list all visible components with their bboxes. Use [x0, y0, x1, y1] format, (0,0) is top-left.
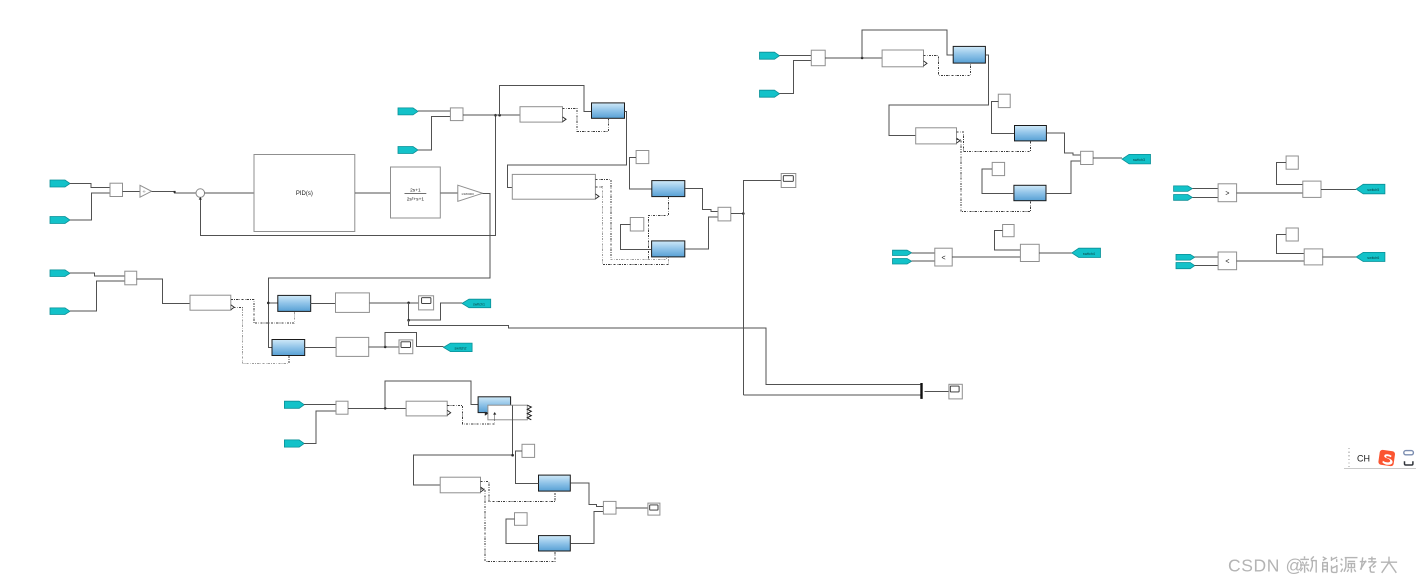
constant C7: [1003, 225, 1015, 237]
wire C5 to RT-E: [982, 169, 1014, 193]
pin R1 out chevron: [563, 117, 567, 122]
pin R1b out chevron: [595, 194, 599, 199]
node tap up: [498, 114, 501, 117]
switch SW6a: [1303, 181, 1321, 197]
svg-text:<: <: [942, 255, 946, 262]
wire M4 to R3: [825, 57, 882, 59]
rate transition RT-C: [953, 46, 985, 63]
svg-text:2s²+s+1: 2s²+s+1: [407, 197, 425, 203]
block R1: [520, 107, 563, 122]
gain K2 1/180000: [458, 185, 483, 201]
wire In11 to REL2: [1192, 188, 1218, 190]
wire MX1 to SC2: [924, 391, 949, 393]
tag switch2: [444, 343, 473, 352]
node jog K1: [174, 191, 176, 193]
node branch RT-A: [267, 302, 270, 305]
constant C15: [515, 513, 528, 526]
wire SW2a out: [731, 213, 744, 215]
wire C2low to RT3: [621, 224, 652, 249]
wire RT-A to RA: [311, 302, 336, 304]
wire RT-E to SW4a: [1046, 161, 1081, 194]
inport In15: [284, 401, 304, 408]
wire REL2 to SW6a: [1237, 192, 1303, 194]
inport In11: [1174, 186, 1193, 192]
wire dashed R7 to RT-H trigger: [481, 489, 555, 561]
wire dashed R2 to RT-A trigger: [231, 299, 294, 323]
block R1b: [512, 174, 595, 199]
inport In5: [50, 270, 70, 277]
rate transition RT-H: [539, 536, 571, 551]
watermark char xin: [1300, 556, 1317, 573]
CSDN logo: [1378, 450, 1395, 467]
wire In9 to REL1: [912, 252, 935, 254]
wire M1 to gain K1: [123, 191, 141, 193]
switch SW2a: [718, 207, 731, 221]
svg-text:switch4: switch4: [1083, 252, 1095, 256]
inport In16: [284, 440, 304, 447]
wire In4 to mux M2: [418, 117, 450, 151]
rate transition RT1: [592, 103, 625, 118]
svg-text:CH: CH: [1357, 454, 1370, 464]
wire C2up to RT2: [630, 157, 652, 189]
wire RT-G to SW8a: [570, 483, 603, 506]
mux M2: [450, 108, 463, 121]
svg-text:switch5: switch5: [1367, 188, 1379, 192]
wire M3 to R2: [137, 279, 190, 304]
scope SCB: [399, 340, 413, 354]
wire dashed RT2 bottom: [648, 197, 668, 260]
rate transition RT-G: [539, 475, 571, 491]
wire C14 to RT-G: [516, 451, 539, 484]
rate transition RT-A: [278, 295, 311, 311]
constant C14: [522, 444, 535, 457]
wire tapA to tag switch1: [409, 303, 462, 320]
wire REL1 to SW5a: [952, 256, 1020, 258]
rate transition RT3: [652, 241, 685, 257]
arrow trigger up: [493, 412, 496, 415]
wire RT-D to SW4a: [1046, 133, 1080, 155]
pin R6 zigzag edge: [527, 405, 531, 420]
watermark char lao: [1360, 557, 1377, 573]
wire feedback to sum S1: [200, 115, 495, 235]
arrow into R6: [485, 412, 488, 416]
wire C9 to SW6a: [1277, 163, 1303, 185]
node tap up2: [861, 57, 864, 60]
inport In8: [760, 90, 780, 97]
block R5: [406, 401, 447, 416]
wire In16 to mux M5: [304, 411, 336, 444]
inport In14: [1176, 263, 1195, 269]
block R2: [190, 295, 231, 310]
svg-text:PID(s): PID(s): [296, 191, 313, 197]
block R4: [916, 128, 957, 144]
wire RB to scope SCB: [369, 346, 399, 348]
wire up-over to RT1: [500, 86, 592, 116]
wire In15 to mux M5: [304, 404, 336, 406]
wire In8 to mux M4: [780, 61, 812, 94]
wire RT-H to SW8a: [570, 512, 603, 544]
inport In4: [398, 147, 418, 154]
wire M5 to R5: [348, 407, 406, 409]
node long net: [742, 212, 745, 215]
watermark char neng: [1322, 557, 1337, 573]
wire dashed R2 to RT-B trigger: [234, 307, 289, 363]
node tapA: [407, 302, 410, 305]
svg-text:1/180000: 1/180000: [461, 192, 474, 196]
block R7: [440, 477, 480, 493]
pin R7 out chevron: [481, 487, 485, 492]
node feedback tap: [494, 114, 497, 117]
wire dashed R4 to RT-D trigger: [957, 132, 1031, 151]
wire dashed R1 to RT1 trigger: [563, 109, 609, 132]
toolbar baseline: [1344, 468, 1416, 470]
wire up-over to RT-C: [862, 30, 953, 58]
wire S1 to PID: [205, 192, 254, 194]
wire In10 to REL1: [912, 260, 935, 262]
wire RT2 to SW2a: [685, 189, 718, 212]
node tapB: [384, 346, 387, 349]
constant C5: [992, 162, 1004, 175]
wire RA to scope SCA: [369, 302, 418, 304]
inport In9: [893, 250, 912, 255]
inport In3: [398, 108, 418, 115]
pin R3 out chevron: [924, 61, 928, 66]
mux M1: [110, 183, 123, 196]
gain K1: [140, 185, 152, 197]
pin R2 out chevron: [231, 305, 234, 310]
inport In7: [760, 52, 780, 59]
wire long net to mux lower input: [743, 394, 920, 396]
wire M2 to R1: [463, 114, 520, 116]
switch SW8a: [603, 501, 616, 514]
switch SW5a: [1020, 244, 1039, 261]
wire C15 to RT-H: [506, 519, 539, 544]
wire In2 to mux M1: [70, 193, 110, 220]
wire long net to mux input: [409, 320, 921, 384]
node tapA2: [407, 319, 410, 322]
wire dashed R7 to RT-G trigger: [481, 482, 555, 502]
mux bar MX1: [920, 383, 922, 399]
scope SC3: [648, 503, 660, 515]
pin R5 out chevron: [447, 410, 451, 415]
icon chip1: [1404, 451, 1414, 455]
rate transition RT-F: [478, 397, 511, 413]
wire In14 to REL3: [1195, 265, 1218, 267]
wire dashed R1b to RT3 path2: [595, 187, 668, 264]
tag switch5: [1356, 184, 1385, 194]
scope SC2: [949, 384, 962, 399]
watermark char yuan: [1341, 558, 1358, 573]
inport In10: [893, 259, 912, 265]
wire TF1 to gain K2: [440, 192, 458, 194]
arrow into S1: [199, 197, 202, 200]
scope SCA: [419, 296, 434, 310]
rate transition RT-B: [272, 340, 305, 356]
op-amp PID controller U1: [254, 155, 355, 232]
wire dashed R1b to RT3 path1: [595, 179, 666, 259]
constant C4: [998, 94, 1010, 107]
inport In13: [1176, 254, 1195, 260]
wire branch to RT-A: [268, 302, 278, 304]
svg-text:switch3: switch3: [1133, 158, 1145, 162]
wire SW8a to SC3: [616, 507, 648, 509]
wire C10 to SW7a: [1277, 235, 1305, 254]
block R3: [882, 50, 923, 67]
relational operator REL3: [1218, 252, 1237, 270]
svg-text:switch1: switch1: [473, 303, 485, 307]
wire tapB to tag switch2: [385, 333, 443, 347]
tag switch6: [1356, 252, 1385, 261]
wire R6 out to R7: [414, 405, 513, 485]
wire RT-B to RB: [305, 347, 336, 349]
pin R4 out chevron: [957, 138, 961, 143]
watermark char da: [1381, 557, 1397, 573]
tag switch4: [1072, 248, 1101, 257]
tag switch1: [462, 299, 491, 308]
scope SC1: [781, 174, 796, 188]
wire RT1 out to R1b: [508, 111, 627, 187]
inport In1: [50, 180, 70, 187]
svg-text:switch6: switch6: [1367, 256, 1379, 260]
wire In6 to mux M3: [70, 281, 125, 311]
relational operator REL2: [1218, 184, 1237, 202]
wire In5 to mux M3: [70, 273, 125, 276]
wire In7 to mux M4: [780, 55, 812, 57]
rate transition RT-E: [1014, 185, 1046, 200]
wire In13 to REL3: [1195, 256, 1218, 258]
icon chip2: [1405, 461, 1413, 465]
node tap up3: [384, 407, 387, 410]
inport In6: [50, 308, 70, 315]
mux M3: [125, 271, 137, 285]
constant C2low: [630, 218, 644, 232]
mux M5: [336, 401, 348, 414]
node R6 out: [511, 454, 514, 457]
wire In1 to mux M1: [70, 184, 110, 188]
wire SW4a to tag switch3: [1093, 157, 1122, 159]
wire C4 to RT-D: [991, 102, 1014, 134]
constant C9: [1286, 156, 1298, 169]
wire K1 to sum S1: [152, 191, 196, 193]
svg-text:switch2: switch2: [455, 346, 467, 350]
mux M4: [811, 50, 825, 65]
wire PID to TF1: [355, 192, 391, 194]
wire dashed R4 to RT-E trigger: [957, 140, 1031, 212]
block R6: [488, 405, 527, 420]
toolbar dotted divider: [1348, 448, 1350, 469]
wire REL3 to SW7a: [1237, 260, 1305, 262]
wire long net vertical to scope and mux: [743, 180, 781, 395]
block RB: [336, 337, 369, 356]
svg-text:<: <: [1225, 259, 1229, 266]
wire K2 output down to blue row feeders: [268, 193, 490, 347]
wire SW7a to tag switch6: [1323, 256, 1357, 258]
sum S1: [196, 189, 205, 198]
constant C2up: [636, 151, 649, 164]
wire In3 to mux M2: [418, 110, 450, 112]
switch SW4a: [1081, 151, 1094, 164]
transfer function TF1: [391, 167, 441, 218]
wire In12 to REL2: [1192, 196, 1218, 198]
block RA: [336, 293, 370, 313]
wire trigger inside R6: [494, 414, 496, 421]
wire dashed R3 to RT-C trigger: [924, 56, 971, 76]
svg-text:2s+1: 2s+1: [410, 188, 421, 194]
wire C7 to SW5a: [995, 231, 1021, 251]
inport In2: [50, 217, 70, 224]
inport In12: [1174, 195, 1193, 201]
wire RT3 to SW2a: [685, 217, 718, 249]
wire up-over to RT-F: [385, 381, 478, 408]
svg-text:CSDN @: CSDN @: [1228, 556, 1304, 576]
switch SW7a: [1304, 249, 1323, 265]
wire SW5a to tag switch4: [1039, 252, 1072, 254]
tag switch3: [1122, 154, 1150, 164]
svg-text:>: >: [1225, 191, 1229, 198]
rate transition RT2: [652, 181, 685, 197]
svg-text:-K-: -K-: [142, 190, 146, 194]
wire SW6a to tag switch5: [1321, 188, 1356, 190]
wire RT-C out to R4: [889, 55, 988, 136]
wire dashed R5 to RT-F trigger: [447, 405, 495, 423]
relational operator REL1: [935, 248, 952, 266]
constant C10: [1286, 228, 1298, 241]
rate transition RT-D: [1015, 126, 1047, 141]
